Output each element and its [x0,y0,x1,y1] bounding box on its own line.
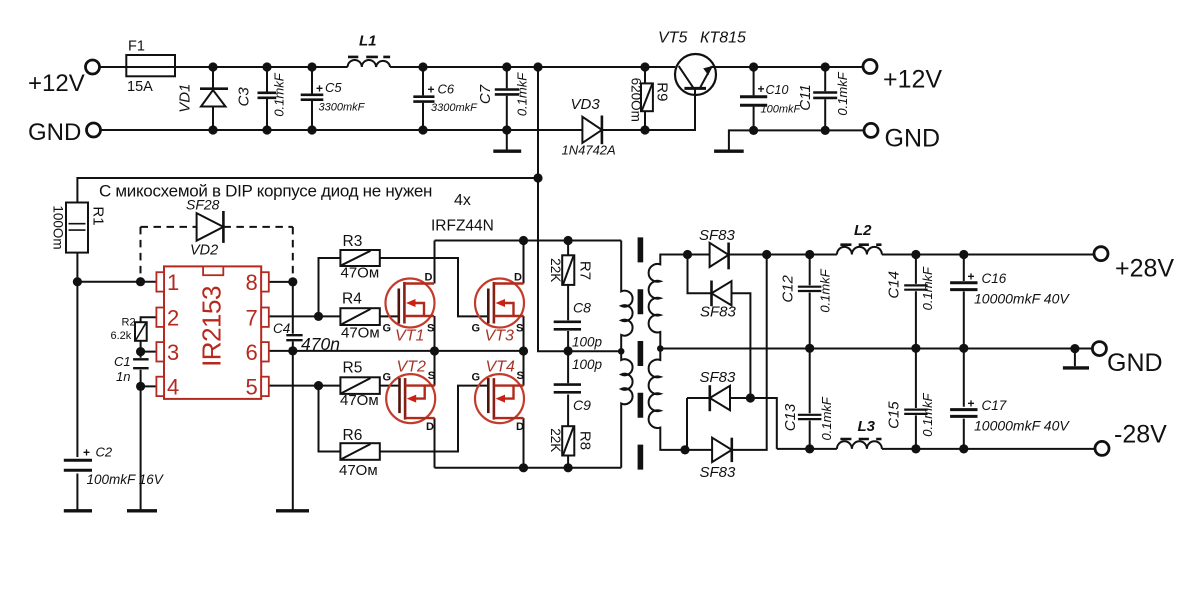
svg-text:4: 4 [167,375,179,400]
svg-text:C17: C17 [982,398,1007,413]
svg-text:6: 6 [246,340,258,365]
svg-text:L2: L2 [854,222,872,239]
svg-text:0.1mkF: 0.1mkF [835,71,850,115]
svg-text:0.1mkF: 0.1mkF [818,268,833,312]
svg-text:R5: R5 [343,360,363,377]
svg-text:С микосхемой в DIP корпусе дио: С микосхемой в DIP корпусе диод не нужен [99,182,432,201]
svg-text:7: 7 [246,305,258,330]
svg-text:C15: C15 [885,401,902,429]
svg-text:G: G [383,372,392,384]
svg-text:10000mkF 40V: 10000mkF 40V [974,291,1070,307]
svg-text:47Ом: 47Ом [339,462,378,479]
svg-text:R1: R1 [90,206,107,225]
svg-text:0.1mkF: 0.1mkF [920,392,935,436]
svg-text:R8: R8 [576,431,593,450]
svg-text:D: D [514,272,522,284]
svg-text:+: + [968,397,975,411]
svg-text:SF83: SF83 [700,464,737,481]
svg-text:+28V: +28V [1115,255,1174,283]
svg-text:470n: 470n [301,334,340,354]
svg-text:C10: C10 [766,83,789,97]
svg-text:R7: R7 [576,261,593,280]
svg-text:G: G [472,323,481,335]
svg-text:100Om: 100Om [51,205,66,249]
svg-text:VD1: VD1 [177,84,194,113]
svg-text:VD3: VD3 [571,96,601,113]
svg-text:C6: C6 [438,82,455,97]
svg-text:S: S [428,370,435,382]
svg-text:L3: L3 [858,418,876,435]
svg-text:VT5: VT5 [658,30,687,47]
svg-text:L1: L1 [359,33,377,50]
svg-text:8: 8 [246,270,258,295]
svg-text:100mkF 16V: 100mkF 16V [87,472,165,487]
svg-text:3300mkF: 3300mkF [431,102,478,114]
svg-text:+: + [428,82,435,96]
svg-text:C13: C13 [782,403,799,431]
svg-text:1: 1 [167,270,179,295]
svg-text:R6: R6 [343,427,363,444]
svg-text:3: 3 [167,340,179,365]
svg-text:C8: C8 [573,300,591,316]
svg-text:C4: C4 [273,321,290,336]
svg-text:SF83: SF83 [700,304,737,321]
svg-text:S: S [517,370,524,382]
svg-text:C7: C7 [477,84,494,104]
svg-text:0.1mkF: 0.1mkF [920,266,935,310]
svg-text:GND: GND [1107,349,1163,377]
svg-text:6.2k: 6.2k [111,330,132,342]
svg-text:100p: 100p [572,357,603,372]
svg-text:IR2153: IR2153 [197,286,227,367]
svg-text:47Ом: 47Ом [341,325,380,342]
svg-text:R9: R9 [654,82,671,101]
svg-text:SF83: SF83 [700,369,737,386]
svg-text:G: G [472,372,481,384]
svg-text:+: + [758,82,765,96]
svg-text:C5: C5 [325,80,342,95]
svg-text:C14: C14 [885,271,902,299]
svg-text:1N4742A: 1N4742A [562,142,616,157]
svg-text:15A: 15A [127,79,153,95]
svg-text:C12: C12 [779,274,796,302]
svg-text:SF28: SF28 [186,197,220,213]
svg-text:3300mkF: 3300mkF [319,102,366,114]
svg-text:VT2: VT2 [397,359,426,376]
svg-text:GND: GND [885,125,941,153]
svg-text:22K: 22K [548,258,563,282]
svg-text:VT4: VT4 [486,359,515,376]
svg-text:C3: C3 [235,87,252,107]
svg-text:2: 2 [167,305,179,330]
svg-text:R4: R4 [342,291,362,308]
svg-text:S: S [427,323,434,335]
svg-text:-28V: -28V [1114,421,1167,449]
svg-text:620Om: 620Om [629,78,644,122]
svg-text:100p: 100p [572,335,603,350]
svg-text:+: + [968,270,975,284]
svg-text:VT3: VT3 [485,328,514,345]
svg-text:C1: C1 [114,354,131,369]
svg-text:0.1mkF: 0.1mkF [271,72,286,116]
svg-text:VT1: VT1 [395,328,424,345]
svg-text:VD2: VD2 [190,243,218,259]
svg-text:SF83: SF83 [699,227,736,244]
svg-text:10000mkF 40V: 10000mkF 40V [974,418,1070,434]
svg-text:47Ом: 47Ом [340,392,379,409]
svg-text:D: D [425,272,433,284]
svg-text:+: + [83,446,90,460]
svg-text:100mkF: 100mkF [761,104,802,116]
svg-text:1n: 1n [116,369,130,384]
svg-text:22K: 22K [548,428,563,452]
svg-text:5: 5 [246,375,258,400]
svg-text:GND: GND [28,119,81,146]
svg-text:C2: C2 [96,445,113,460]
svg-text:R2: R2 [122,317,136,329]
svg-text:R3: R3 [343,233,363,250]
svg-text:+: + [316,82,323,96]
svg-text:IRFZ44N: IRFZ44N [431,218,494,235]
svg-text:C16: C16 [982,271,1007,286]
svg-text:0.1mkF: 0.1mkF [819,396,834,440]
svg-text:C9: C9 [573,397,591,413]
svg-text:4x: 4x [454,192,471,209]
svg-text:D: D [516,421,524,433]
svg-text:D: D [426,421,434,433]
svg-text:F1: F1 [128,39,145,55]
svg-text:+12V: +12V [28,70,85,97]
svg-text:S: S [516,323,523,335]
svg-text:47Ом: 47Ом [341,265,380,282]
svg-text:G: G [383,323,392,335]
svg-text:КТ815: КТ815 [700,30,746,47]
svg-text:0.1mkF: 0.1mkF [515,72,530,116]
svg-text:+12V: +12V [883,66,942,94]
